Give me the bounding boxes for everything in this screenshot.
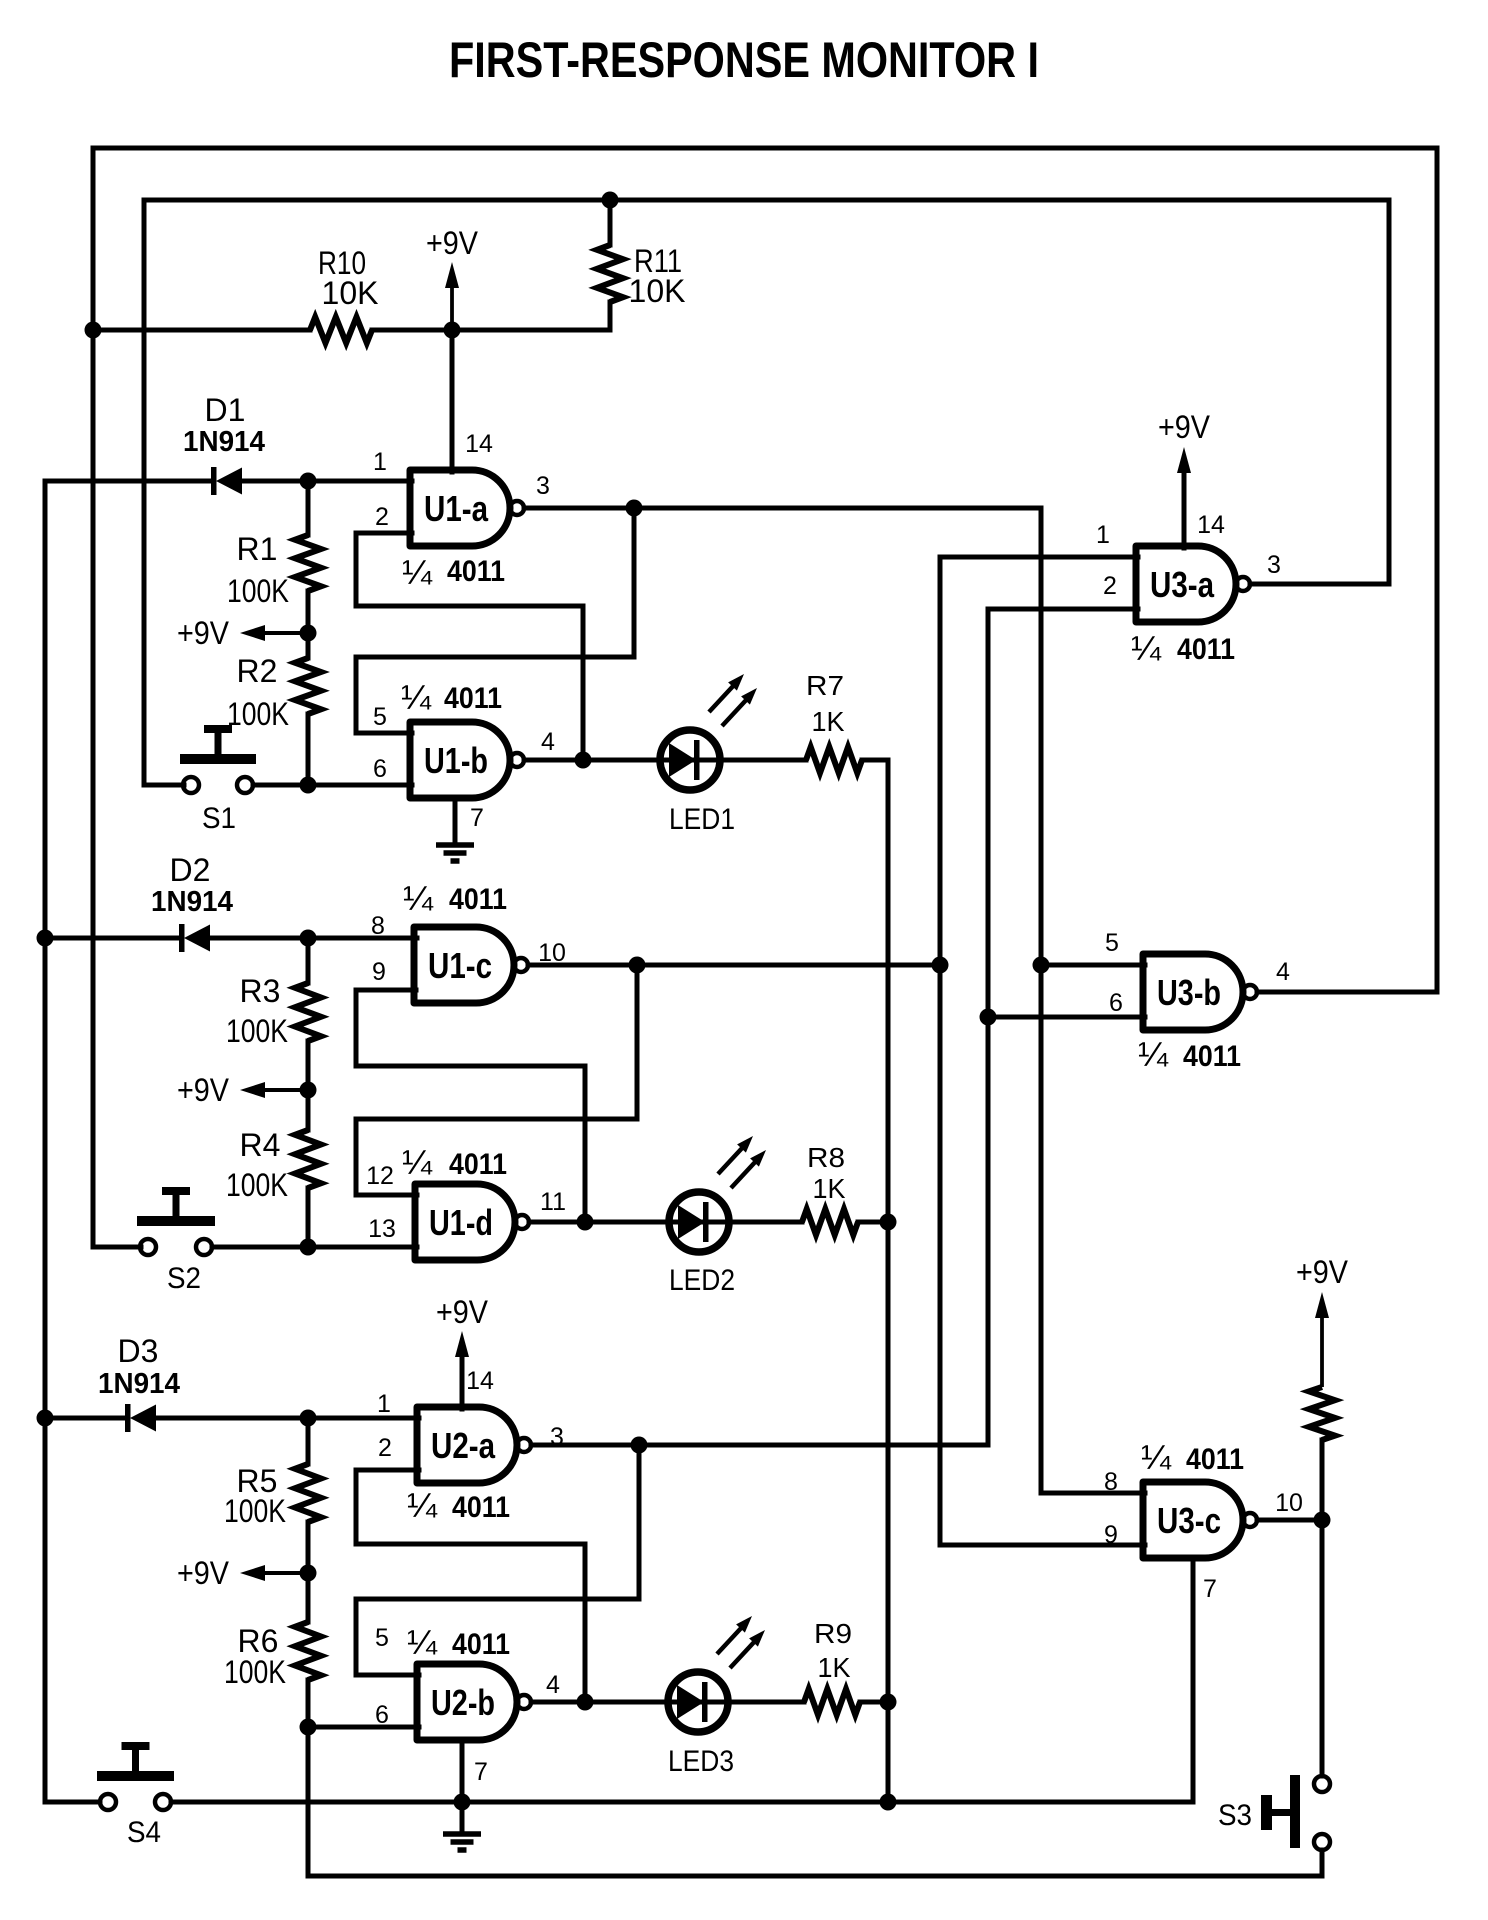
svg-text:S1: S1	[202, 802, 236, 835]
resistor R8 1K	[802, 1209, 858, 1235]
svg-text:U2-a: U2-a	[431, 1425, 496, 1466]
wire R8 to LED return column	[858, 1220, 888, 1225]
svg-text:11: 11	[540, 1188, 566, 1216]
svg-text:3: 3	[1267, 551, 1281, 579]
svg-text:7: 7	[474, 1758, 488, 1786]
U3-c 1/4 4011 label	[1141, 1439, 1244, 1477]
junction U1-a output / feedback to U1-b pin 5	[626, 500, 643, 517]
wire R7 to LED return column	[862, 758, 888, 763]
svg-text:4: 4	[1276, 958, 1290, 986]
wire U2-a output column up to U3-a pin 2	[986, 609, 991, 1445]
wire R3 to +9V tap	[306, 1041, 311, 1130]
wire U3-a output to right loop	[1250, 582, 1389, 587]
junction U3-b pin 5 / U1-a output column	[1033, 957, 1050, 974]
diode D1 1N914	[211, 467, 242, 495]
svg-text:R7: R7	[806, 670, 844, 701]
svg-text:4011: 4011	[1177, 633, 1235, 666]
+9V supply arrow (U2-a pin 14)	[436, 1294, 489, 1357]
junction R8 / LED return column	[880, 1214, 897, 1231]
svg-text:7: 7	[1203, 1575, 1217, 1603]
svg-text:+9V: +9V	[436, 1294, 489, 1330]
junction R5/R6 +9V tap	[300, 1565, 317, 1582]
svg-text:1N914: 1N914	[151, 886, 233, 918]
svg-text:4011: 4011	[449, 1148, 507, 1181]
diode D3 labels	[98, 1333, 180, 1400]
junction U2-a output / feedback to U2-b pin 5	[631, 1437, 648, 1454]
svg-text:U3-a: U3-a	[1150, 564, 1215, 605]
junction U1-b output / feedback to U1-a pin 2	[575, 752, 592, 769]
NAND gate U2-b	[417, 1664, 531, 1740]
wire D2 cathode lead	[45, 936, 179, 941]
svg-text:R9: R9	[814, 1618, 852, 1649]
wire U1-c output row	[528, 963, 940, 968]
svg-text:U2-b: U2-b	[431, 1682, 495, 1723]
wire U1-c output feedback to U1-d pin 12	[356, 965, 637, 1195]
svg-text:1N914: 1N914	[98, 1368, 180, 1400]
wire U1-a output row	[524, 506, 1041, 511]
wire U3-a pin 1 lead	[940, 555, 1138, 560]
wire S4 left lead	[45, 1800, 100, 1805]
svg-text:4: 4	[541, 728, 555, 756]
svg-text:10K: 10K	[322, 275, 379, 311]
wire U1-c output column up to U3-a pin 1	[938, 557, 943, 1545]
resistor R1 labels	[227, 531, 289, 609]
wire pull-up resistor to U3-c output junction	[1320, 1440, 1325, 1520]
U3-b 1/4 4011 label	[1138, 1036, 1241, 1074]
svg-text:100K: 100K	[226, 1013, 288, 1049]
resistor R7 1K	[806, 747, 862, 773]
svg-text:100K: 100K	[227, 573, 289, 609]
wire R11 bottom lead	[608, 302, 613, 330]
svg-text:¼: ¼	[403, 880, 434, 918]
junction +9V tap / pin 14 of U1-a	[444, 322, 461, 339]
wire U3-a pin 2 lead	[988, 607, 1138, 612]
NAND gate U3-b	[1143, 954, 1257, 1030]
resistor R8 labels	[807, 1142, 846, 1204]
svg-text:7: 7	[470, 804, 484, 832]
resistor R9 1K	[804, 1689, 860, 1715]
svg-text:4011: 4011	[1183, 1040, 1241, 1073]
junction U3-b pin 6 / U2-a output column	[980, 1009, 997, 1026]
diode D2 1N914	[179, 924, 210, 952]
resistor R5 labels	[224, 1463, 286, 1529]
svg-text:2: 2	[378, 1434, 392, 1462]
U1-d 1/4 4011 label	[402, 1144, 507, 1182]
svg-text:¼: ¼	[1141, 1439, 1172, 1477]
+9V supply arrow (S3 pull-up)	[1296, 1254, 1349, 1387]
resistor R7 labels	[806, 670, 845, 737]
NAND gate U1-d	[415, 1184, 529, 1260]
svg-text:3: 3	[536, 472, 550, 500]
wire U3-c pin 9 lead	[940, 1543, 1145, 1548]
svg-text:2: 2	[375, 503, 389, 531]
junction R1/R2 +9V tap	[300, 625, 317, 642]
wire U3-c pin 8 lead	[1041, 1491, 1145, 1496]
svg-text:U1-a: U1-a	[424, 488, 489, 529]
svg-text:+9V: +9V	[426, 225, 479, 261]
resistor (S3 pull-up)	[1309, 1387, 1335, 1440]
wire net U3-b output to S2, left vertical	[91, 148, 96, 1247]
svg-text:5: 5	[1105, 929, 1119, 957]
wire R11 top lead	[608, 200, 613, 245]
svg-text:14: 14	[465, 430, 493, 458]
pushbutton switch S4	[97, 1742, 174, 1849]
wire U3-c output to S3 column	[1257, 1518, 1322, 1523]
svg-text:100K: 100K	[227, 696, 289, 732]
svg-text:¼: ¼	[1131, 630, 1162, 668]
svg-text:6: 6	[1109, 989, 1123, 1017]
wire D1/D2/D3 anode column to S4	[43, 481, 48, 1802]
LED LED3	[668, 1616, 765, 1778]
svg-text:¼: ¼	[407, 1624, 438, 1662]
svg-text:R2: R2	[237, 653, 278, 689]
wire net U3-a output, right vertical	[1387, 200, 1392, 584]
svg-text:¼: ¼	[1138, 1036, 1169, 1074]
svg-text:100K: 100K	[226, 1167, 288, 1203]
LED LED2	[669, 1136, 766, 1297]
wire U1-a output feedback to U1-b pin 5	[356, 508, 634, 733]
wire D2 anode to U1-c pin 8	[212, 936, 417, 941]
wire U2-b pin 7 stub	[460, 1740, 465, 1802]
svg-text:+9V: +9V	[177, 1555, 230, 1591]
wire U1-a pin 14 stub	[450, 330, 455, 472]
resistor R6 100K	[295, 1622, 321, 1680]
svg-text:U3-b: U3-b	[1157, 972, 1221, 1013]
svg-text:9: 9	[372, 958, 386, 986]
wire rail R10 to +9V tap	[372, 328, 452, 333]
junction R3/R4 +9V tap	[300, 1082, 317, 1099]
svg-text:100K: 100K	[224, 1493, 286, 1529]
resistor R2 100K	[295, 658, 321, 714]
resistor R10 10K	[310, 317, 372, 343]
svg-text:D3: D3	[118, 1333, 159, 1369]
svg-text:LED1: LED1	[669, 803, 735, 836]
wire R2 bottom lead	[306, 714, 311, 785]
U1-c 1/4 4011 label	[403, 880, 507, 918]
wire +9V rail left segment	[93, 328, 310, 333]
diode D2 labels	[151, 852, 233, 918]
svg-text:U1-b: U1-b	[424, 740, 488, 781]
svg-text:LED3: LED3	[668, 1745, 734, 1778]
svg-text:S2: S2	[167, 1262, 201, 1295]
resistor R9 labels	[814, 1618, 852, 1683]
wire S2 left lead	[93, 1245, 141, 1250]
junction S2 row / R4 bottom	[300, 1239, 317, 1256]
svg-text:4: 4	[546, 1671, 560, 1699]
wire net U3-b output to S2, top segment	[93, 146, 1437, 151]
svg-text:13: 13	[368, 1215, 396, 1243]
wire rail to R11	[452, 328, 610, 333]
wire U3-a pin 14 stub	[1182, 462, 1187, 548]
svg-text:12: 12	[366, 1162, 394, 1190]
svg-text:¼: ¼	[402, 554, 433, 592]
wire U2-a output feedback to U2-b pin 5	[356, 1445, 639, 1675]
resistor R3 labels	[226, 973, 288, 1049]
wire U1-a output column down to U3-c pin 8	[1039, 508, 1044, 1493]
wire S1 left lead	[144, 783, 184, 788]
svg-text:+9V: +9V	[177, 615, 230, 651]
wire D1 cathode lead	[45, 479, 211, 484]
wire net U3-a output to S1, left vertical	[142, 200, 147, 785]
svg-text:8: 8	[371, 912, 385, 940]
svg-text:5: 5	[375, 1624, 389, 1652]
junction D2 / anode column	[37, 930, 54, 947]
NAND gate U1-a	[410, 470, 524, 546]
svg-text:1K: 1K	[813, 1173, 846, 1204]
resistor R4 labels	[226, 1127, 288, 1203]
LED LED1	[660, 674, 757, 836]
+9V supply arrow (block 2)	[177, 1072, 308, 1108]
svg-text:¼: ¼	[407, 1487, 438, 1525]
junction U2-b output / feedback to U2-a pin 2	[577, 1694, 594, 1711]
wire R4 bottom lead	[306, 1188, 311, 1247]
diode D3 1N914	[125, 1404, 156, 1432]
svg-text:R1: R1	[237, 531, 278, 567]
wire U3-c output junction to S3	[1320, 1520, 1325, 1776]
wire R1 top lead	[306, 481, 311, 535]
junction U2-b pin 6 / S3 return column	[300, 1719, 317, 1736]
svg-text:10: 10	[1275, 1489, 1303, 1517]
wire S4 to U3-c pin 7 (ground row)	[171, 1800, 1193, 1805]
junction D2 row / R3 column	[300, 930, 317, 947]
wire D1 anode to U1-a pin 1	[244, 479, 412, 484]
svg-text:4011: 4011	[452, 1628, 510, 1661]
svg-text:4011: 4011	[449, 883, 507, 916]
svg-text:S3: S3	[1218, 1799, 1252, 1832]
wire R5 to +9V tap	[306, 1522, 311, 1622]
NAND gate U3-c	[1143, 1482, 1257, 1558]
wire S3 bottom to U2-b pin 6 column	[308, 1727, 1322, 1876]
junction R9 / LED return column	[880, 1694, 897, 1711]
diode D1 labels	[183, 392, 265, 458]
wire R6 bottom lead	[306, 1680, 311, 1727]
svg-text:FIRST-RESPONSE MONITOR I: FIRST-RESPONSE MONITOR I	[449, 32, 1039, 88]
wire U1-b pin 7 stub	[453, 798, 458, 843]
U1-b 1/4 4011 label	[401, 679, 502, 717]
svg-text:U1-d: U1-d	[429, 1202, 493, 1243]
svg-text:R3: R3	[240, 973, 281, 1009]
svg-text:¼: ¼	[401, 679, 432, 717]
NAND gate U1-b	[410, 722, 524, 798]
junction S4 row / U2-b pin 7	[454, 1794, 471, 1811]
svg-text:+9V: +9V	[177, 1072, 230, 1108]
junction R11 / U3-a output loop	[602, 192, 619, 209]
wire U3-b pin 6 lead	[988, 1015, 1145, 1020]
wire U3-b output to outer loop	[1257, 990, 1437, 995]
+9V supply arrow (top)	[426, 225, 479, 330]
wire R9 to LED return column	[860, 1700, 888, 1705]
svg-text:R8: R8	[807, 1142, 845, 1173]
pushbutton switch S3	[1218, 1775, 1330, 1850]
wire U1-d output feedback to U1-c pin 9	[356, 990, 585, 1222]
ground (U2-b pin 7)	[443, 1834, 481, 1850]
svg-text:4011: 4011	[447, 555, 505, 588]
svg-text:1: 1	[1096, 521, 1110, 549]
svg-text:1K: 1K	[812, 706, 845, 737]
junction U1-c output / U3 column	[932, 957, 949, 974]
NAND gate U1-c	[414, 927, 528, 1003]
svg-text:4011: 4011	[444, 682, 502, 715]
junction ground row / LED return column	[880, 1794, 897, 1811]
wire D3 anode to U2-a pin 1	[158, 1416, 419, 1421]
resistor R4 100K	[295, 1130, 321, 1188]
wire U1-d output to LED2	[529, 1220, 802, 1225]
wire LED return column to ground row	[886, 760, 891, 1802]
U2-a 1/4 4011 label	[407, 1487, 510, 1525]
junction D3 / anode column	[37, 1410, 54, 1427]
resistor R11 10K	[597, 245, 623, 302]
svg-text:1: 1	[377, 1390, 391, 1418]
svg-text:1: 1	[373, 448, 387, 476]
svg-text:+9V: +9V	[1296, 1254, 1349, 1290]
wire S2 row to U1-d pin 13	[212, 1245, 417, 1250]
wire U1-b output feedback to U1-a pin 2	[356, 533, 583, 760]
svg-text:1K: 1K	[818, 1652, 851, 1683]
svg-text:14: 14	[466, 1367, 494, 1395]
pushbutton switch S2	[137, 1187, 215, 1295]
resistor R5 100K	[295, 1464, 321, 1522]
+9V supply arrow (block 3)	[177, 1555, 308, 1591]
wire R6 bottom to U2-b pin 6	[308, 1725, 419, 1730]
svg-text:4011: 4011	[1186, 1443, 1244, 1476]
svg-text:9: 9	[1104, 1521, 1118, 1549]
NAND gate U2-a	[417, 1407, 531, 1483]
junction D3 row / R5 column	[300, 1410, 317, 1427]
resistor R1 100K	[295, 535, 321, 591]
wire U3-b pin 5 lead	[1041, 963, 1145, 968]
+9V supply arrow (block 1)	[177, 615, 308, 651]
svg-text:4011: 4011	[452, 1491, 510, 1524]
svg-text:10K: 10K	[629, 273, 686, 309]
wire U3-c pin 7 to ground row	[1191, 1558, 1196, 1802]
wire net U3-b output, right vertical	[1435, 148, 1440, 992]
svg-text:¼: ¼	[402, 1144, 433, 1182]
svg-text:5: 5	[373, 703, 387, 731]
resistor R2 labels	[227, 653, 289, 732]
wire R5 top lead	[306, 1418, 311, 1464]
resistor R11 labels	[629, 243, 686, 309]
wire R3 top lead	[306, 938, 311, 983]
wire U2-b output feedback to U2-a pin 2	[356, 1470, 585, 1702]
svg-text:6: 6	[373, 755, 387, 783]
svg-text:1N914: 1N914	[183, 426, 265, 458]
wire U2-a output row	[531, 1443, 988, 1448]
svg-text:R4: R4	[240, 1127, 281, 1163]
wire net U3-a output to S1, top segment	[144, 198, 1389, 203]
svg-text:14: 14	[1197, 511, 1225, 539]
svg-text:100K: 100K	[224, 1654, 286, 1690]
junction U3-c output / S3 pull-up column	[1314, 1512, 1331, 1529]
wire R1 to +9V tap	[306, 591, 311, 658]
+9V supply arrow (U3-a pin 14)	[1158, 409, 1211, 473]
pushbutton switch S1	[180, 725, 256, 835]
wire S1 row to U1-b pin 6	[253, 783, 412, 788]
junction U1-d output / feedback to U1-c pin 9	[577, 1214, 594, 1231]
ground (U1-b pin 7)	[436, 845, 474, 861]
wire ground stub below S4 row	[460, 1802, 465, 1832]
svg-text:U1-c: U1-c	[428, 945, 492, 986]
junction D1 row / R1 column	[300, 473, 317, 490]
wire D3 cathode lead	[45, 1416, 125, 1421]
resistor R6 labels	[224, 1623, 286, 1690]
svg-text:D1: D1	[205, 392, 246, 428]
svg-text:U3-c: U3-c	[1157, 1500, 1221, 1541]
svg-text:S4: S4	[127, 1816, 161, 1849]
svg-text:2: 2	[1103, 572, 1117, 600]
svg-text:D2: D2	[170, 852, 211, 888]
U3-a 1/4 4011 label	[1131, 630, 1235, 668]
NAND gate U3-a	[1136, 546, 1250, 622]
U1-a 1/4 4011 label	[402, 554, 505, 592]
wire U2-a pin 14 stub	[460, 1348, 465, 1409]
wire U2-b output to LED3	[531, 1700, 804, 1705]
junction S1 row / R2 bottom	[300, 777, 317, 794]
resistor R10 labels	[318, 245, 378, 311]
resistor R3 100K	[295, 983, 321, 1041]
svg-text:LED2: LED2	[669, 1264, 735, 1297]
junction rail / left vertical	[85, 322, 102, 339]
junction U1-c output / feedback to U1-d pin 12	[629, 957, 646, 974]
svg-text:+9V: +9V	[1158, 409, 1211, 445]
wire U1-b output to LED1	[524, 758, 806, 763]
U2-b 1/4 4011 label	[407, 1624, 510, 1662]
